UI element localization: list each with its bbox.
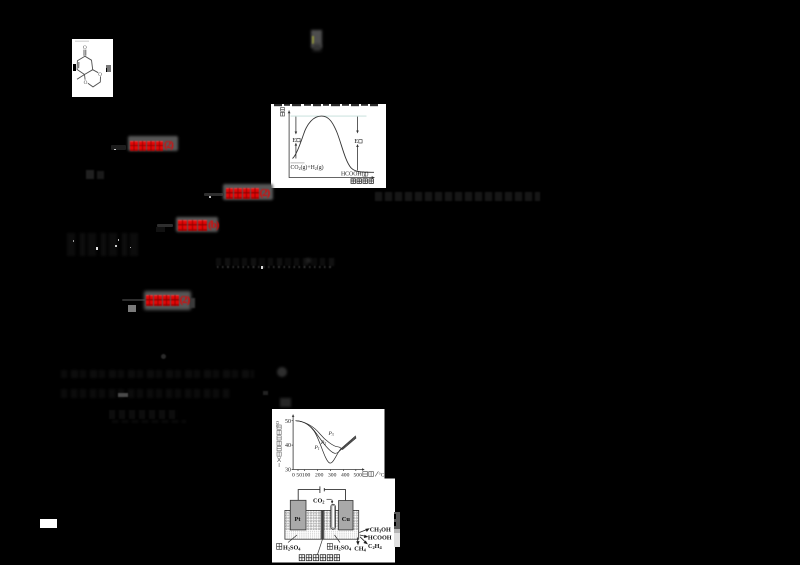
svg-text:0: 0 bbox=[292, 472, 295, 478]
svg-text:Cu: Cu bbox=[341, 516, 350, 523]
svg-text:O: O bbox=[84, 80, 88, 86]
svg-text:O: O bbox=[98, 72, 102, 78]
svg-text:HCOOH(g): HCOOH(g) bbox=[341, 170, 368, 177]
svg-text:Pt: Pt bbox=[294, 516, 301, 523]
svg-text:°C: °C bbox=[378, 472, 384, 479]
svg-text:400: 400 bbox=[341, 472, 350, 478]
svg-text:CH4: CH4 bbox=[354, 546, 366, 553]
svg-text:HCOOH: HCOOH bbox=[367, 535, 391, 542]
svg-text:CH3OH: CH3OH bbox=[369, 527, 390, 534]
svg-text:500: 500 bbox=[353, 472, 362, 478]
svg-text:30: 30 bbox=[285, 468, 291, 474]
svg-text:E: E bbox=[354, 138, 358, 145]
svg-text:CO: CO bbox=[275, 420, 280, 427]
svg-text:200: 200 bbox=[315, 472, 324, 478]
svg-text:H2SO4: H2SO4 bbox=[333, 545, 351, 552]
svg-text:O: O bbox=[83, 45, 87, 51]
svg-text:E: E bbox=[292, 136, 296, 143]
svg-text:CO2(g)+H2(g): CO2(g)+H2(g) bbox=[290, 164, 323, 171]
svg-text:H2SO4: H2SO4 bbox=[283, 545, 301, 552]
svg-text:100: 100 bbox=[301, 472, 310, 478]
svg-text:40: 40 bbox=[285, 443, 291, 449]
svg-text:C2H4: C2H4 bbox=[368, 543, 383, 550]
svg-text:CO2: CO2 bbox=[313, 497, 324, 504]
svg-text:300: 300 bbox=[328, 472, 337, 478]
svg-text:50: 50 bbox=[285, 419, 291, 425]
